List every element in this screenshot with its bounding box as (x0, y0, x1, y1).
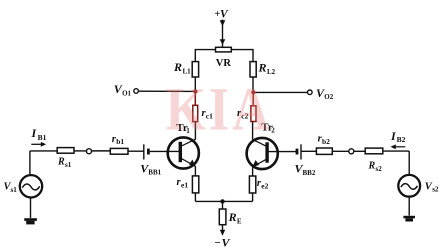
wire RL2 to node B (252, 77, 254, 92)
wire re2 to common rail (252, 193, 254, 201)
wire Vs1 to ground (30, 197, 32, 218)
resistor re2 (249, 176, 255, 193)
svg-text:I: I (31, 126, 38, 140)
svg-text:b2: b2 (322, 137, 330, 146)
svg-text:B2: B2 (397, 135, 406, 144)
svg-text:s2: s2 (432, 186, 439, 194)
ground left (24, 218, 37, 224)
arrow IB1 current direction (31, 143, 42, 145)
resistor Rs1 (57, 148, 74, 154)
label IB2 (390, 129, 406, 144)
svg-text:R: R (57, 157, 65, 168)
wire rc1 to Tr1 collector (194, 122, 196, 140)
svg-text:R: R (173, 60, 182, 74)
svg-text:E: E (237, 217, 242, 225)
wire Tr2 base to battery VBB2 (269, 151, 297, 153)
wire Rs1 to node (74, 150, 87, 152)
wire battery to Tr1 base (150, 150, 179, 152)
svg-text:e1: e1 (181, 180, 188, 189)
battery VBB1 (140, 144, 161, 176)
node +V supply (215, 9, 230, 21)
wire node to rb1 (92, 150, 111, 152)
wire node B to rc2 (252, 92, 254, 106)
wire common emitter rail (195, 200, 252, 202)
battery VBB2 (295, 144, 316, 177)
transistor Tr1 (168, 122, 199, 169)
arrow IB2 current direction (395, 146, 406, 148)
node B junction dot (251, 90, 255, 94)
transistor Tr2 (247, 122, 278, 170)
wire Rs2 to Vs2 corner (383, 150, 409, 152)
potentiometer VR (216, 47, 232, 52)
wire Tr2 emitter to re2 (252, 166, 254, 176)
terminal VO2 (308, 90, 313, 95)
wire battery to rb2 (301, 150, 316, 152)
svg-text:R: R (258, 61, 267, 75)
terminal VO1 (134, 89, 139, 94)
ground right (403, 216, 415, 222)
resistor rb2 (316, 148, 332, 154)
svg-text:B1: B1 (38, 133, 47, 142)
wire rc2 to Tr2 collector (252, 122, 254, 140)
resistor rc1 (193, 105, 198, 121)
node A junction dot (193, 89, 197, 93)
open node left input (87, 149, 92, 154)
svg-text:KIA: KIA (166, 76, 273, 144)
svg-text:e2: e2 (261, 181, 268, 190)
svg-text:VR: VR (216, 58, 232, 69)
svg-text:V: V (222, 236, 231, 250)
svg-text:BB1: BB1 (148, 169, 161, 177)
wire Vs1 vertical (29, 151, 31, 176)
source Vs2 (398, 175, 439, 197)
wire re1 to common rail (194, 193, 196, 202)
svg-text:R: R (368, 161, 376, 172)
wire +V down to VR (222, 20, 224, 48)
resistor rc2 (251, 106, 256, 122)
wire node B to VO2 terminal (253, 91, 307, 93)
wire RE to -V (222, 225, 224, 232)
svg-text:V: V (220, 9, 229, 21)
svg-text:b1: b1 (116, 137, 124, 146)
node -V supply (215, 236, 231, 250)
wire Vs2 to ground (408, 196, 410, 215)
wire Vs1 top to Rs1 (30, 150, 57, 152)
node E junction dot (220, 199, 224, 203)
svg-text:s2: s2 (376, 165, 383, 173)
svg-text:O1: O1 (122, 90, 131, 98)
arrowhead lower on +V wire (220, 39, 226, 45)
arrowhead upper on +V wire (220, 20, 226, 26)
label IB1 (31, 126, 47, 142)
wire node A to VO1 terminal (137, 90, 195, 92)
svg-text:O2: O2 (324, 93, 333, 101)
resistor rb1 (110, 148, 128, 154)
resistor RL2 (250, 62, 256, 77)
resistor Rs2 (365, 148, 383, 154)
source Vs1 (4, 175, 43, 197)
wire node to Rs2 (354, 150, 366, 152)
svg-text:L1: L1 (183, 68, 192, 76)
watermark KIA (166, 76, 273, 144)
wire Tr1 emitter to re1 (194, 166, 196, 176)
resistor RE (219, 209, 226, 225)
arrowhead -V (220, 230, 225, 236)
wire VR right to RL2 (231, 50, 253, 62)
wire node A to rc1 (194, 92, 196, 106)
svg-text:s1: s1 (11, 186, 18, 194)
open node right input (349, 149, 354, 154)
resistor RL1 (192, 62, 198, 77)
wire rb1 to battery VBB1 (128, 150, 144, 152)
resistor re1 (192, 176, 198, 193)
wire VR left to RL1 (195, 50, 215, 62)
wire node E to RE (222, 201, 224, 209)
svg-text:R: R (228, 210, 237, 224)
svg-text:−: − (215, 237, 221, 249)
wire Vs2 vertical (408, 151, 410, 175)
wire RL1 to node A (194, 77, 196, 92)
svg-text:s1: s1 (65, 161, 72, 169)
svg-text:BB2: BB2 (303, 169, 316, 177)
wire rb2 to node (332, 150, 349, 152)
